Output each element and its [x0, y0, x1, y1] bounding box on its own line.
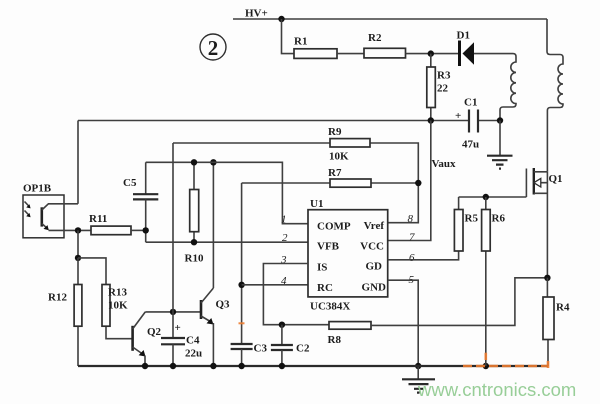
resistor R13 10K [78, 258, 133, 339]
wire RC pin4 [242, 284, 308, 286]
svg-text:C5: C5 [123, 177, 137, 189]
svg-text:VCC: VCC [360, 241, 384, 253]
svg-text:R9: R9 [328, 126, 342, 138]
junction R11 / C5 [143, 227, 149, 233]
resistor R3 [427, 54, 451, 121]
svg-text:IS: IS [317, 262, 327, 274]
ground rail (bottom) [78, 365, 548, 367]
svg-text:R6: R6 [492, 213, 506, 225]
svg-text:R5: R5 [465, 213, 479, 225]
wire R2-D1 [406, 53, 459, 55]
svg-text:R10: R10 [185, 253, 204, 265]
svg-text:6: 6 [409, 252, 415, 264]
svg-text:UC384X: UC384X [310, 301, 350, 313]
junction Q3 collector / comp rail [210, 159, 216, 165]
wire Q3 collector up to comp rail [212, 162, 214, 288]
svg-text:COMP: COMP [317, 221, 351, 233]
diode D1 [457, 30, 475, 67]
junction OP1B emitter / R11 / divider [75, 227, 81, 233]
svg-text:8: 8 [408, 213, 414, 225]
svg-text:U1: U1 [310, 198, 323, 210]
wire emitter node down [77, 230, 79, 258]
junction R9-line / Q2C-Q3B / C4 [170, 309, 176, 315]
junction HV+ / R1 branch [278, 16, 284, 22]
wire gate drive from GD [388, 251, 459, 260]
wire GND pin5 down [388, 280, 419, 366]
capacitor C4 22u [161, 322, 202, 366]
resistor R10 [185, 162, 204, 264]
svg-text:C3: C3 [254, 343, 268, 355]
junction pin5 / ground rail [415, 363, 421, 369]
svg-text:Q3: Q3 [216, 299, 231, 311]
resistor R11 [89, 213, 131, 235]
svg-text:R7: R7 [328, 167, 342, 179]
wire drop to R1 [282, 19, 295, 54]
svg-text:R12: R12 [48, 292, 67, 304]
junction C2 / sense [279, 322, 285, 328]
svg-text:HV+: HV+ [245, 8, 268, 20]
svg-text:Vref: Vref [364, 220, 385, 232]
junction R6 top [483, 194, 489, 200]
svg-text:R4: R4 [556, 302, 570, 314]
junction C3 / rail [238, 363, 244, 369]
svg-text:Q2: Q2 [147, 326, 162, 338]
svg-text:VFB: VFB [317, 241, 340, 253]
resistor R5 [454, 197, 478, 251]
wire R7-left column down to C3 [241, 183, 243, 344]
svg-text:Vaux: Vaux [432, 158, 457, 170]
junction C4 / rail [170, 363, 176, 369]
capacitor C3 [231, 343, 268, 367]
svg-text:10K: 10K [329, 151, 349, 163]
junction RC pin4 / C3 column [238, 282, 244, 288]
transformer winding left (aux/clamp) [500, 54, 516, 121]
svg-text:GD: GD [366, 261, 383, 273]
wire gate rail [459, 196, 527, 198]
wire Vaux to VCC pin7 [388, 121, 431, 241]
IC U1 UC384X [308, 198, 388, 313]
wire comp rail (C5/R10/Q3/pin1) [146, 162, 308, 223]
svg-text:OP1B: OP1B [23, 183, 52, 195]
wire D1 to transformer primary-left [474, 53, 513, 55]
wire VFB pin2 [146, 241, 308, 243]
svg-text:R2: R2 [368, 32, 382, 44]
watermark highlight dashes (orange) [239, 323, 549, 368]
svg-text:C1: C1 [464, 97, 477, 109]
svg-text:1: 1 [281, 214, 287, 226]
junction R7 / Vref column [415, 180, 421, 186]
svg-text:Q1: Q1 [549, 173, 563, 185]
wire R9 left column [172, 143, 174, 338]
junction Q3 emitter / rail [210, 363, 216, 369]
svg-text:www.cntronics.com: www.cntronics.com [417, 379, 576, 400]
capacitor C2 [271, 325, 310, 366]
resistor R8 [328, 322, 372, 346]
optocoupler OP1B [23, 183, 91, 238]
svg-text:2: 2 [208, 36, 219, 60]
junction Q2 emitter / rail [142, 363, 148, 369]
svg-text:7: 7 [409, 232, 415, 244]
capacitor C5 [123, 162, 158, 242]
svg-text:4: 4 [281, 275, 287, 287]
resistor R1 [294, 36, 337, 59]
wire R1-R2 [337, 53, 364, 55]
svg-text:GND: GND [362, 282, 387, 294]
capacitor C1 47u [455, 97, 479, 151]
svg-text:+: + [175, 322, 181, 334]
ground (main) [402, 366, 435, 393]
svg-text:22u: 22u [185, 348, 202, 360]
resistor R9 10K [173, 126, 418, 223]
svg-text:2: 2 [282, 232, 288, 244]
wire left rail down to optocoupler [77, 121, 79, 204]
MOSFET Q1 [526, 168, 562, 278]
wire R8 to Q1 source node [371, 278, 547, 326]
svg-text:22: 22 [437, 83, 449, 95]
wire Vaux rail (long horizontal) [78, 120, 500, 122]
resistor R12 [48, 258, 82, 366]
junction R10 top [191, 159, 197, 165]
svg-text:R3: R3 [437, 70, 451, 82]
wire HV+ rail [233, 18, 547, 20]
wire Q2 collector to Q3 base [145, 311, 201, 313]
resistor R7 [242, 167, 419, 187]
svg-text:C4: C4 [186, 335, 200, 347]
svg-text:C2: C2 [296, 343, 310, 355]
resistor R2 [364, 32, 406, 58]
transformer winding right (primary) [547, 19, 563, 172]
junction R12/R13 [75, 255, 81, 261]
transistor Q3 [201, 288, 230, 366]
wire R11 to C5 node [131, 229, 146, 231]
figure mark (2) [200, 34, 226, 60]
ground (C1) [487, 121, 513, 169]
junction R3 top [428, 50, 434, 56]
svg-text:R1: R1 [294, 36, 307, 48]
junction C2 / rail [279, 363, 285, 369]
svg-text:D1: D1 [457, 30, 470, 42]
junction R10 bottom [191, 239, 197, 245]
svg-text:R11: R11 [89, 213, 107, 225]
wire IS pin3 sense path [263, 264, 329, 325]
resistor R6 [482, 197, 506, 366]
svg-text:47u: 47u [462, 139, 479, 151]
junction R6 / rail [483, 363, 489, 369]
svg-text:10K: 10K [108, 300, 128, 312]
resistor R4 [543, 278, 570, 366]
transistor Q2 [133, 312, 162, 366]
svg-text:+: + [455, 110, 461, 122]
svg-text:R8: R8 [328, 334, 342, 346]
svg-text:R13: R13 [108, 287, 127, 299]
junction C1 right / winding / ground [497, 117, 503, 123]
svg-text:RC: RC [317, 282, 333, 294]
junction R3 bottom / Vaux [428, 117, 434, 123]
junction Q1 source / R4 / sense [544, 275, 550, 281]
